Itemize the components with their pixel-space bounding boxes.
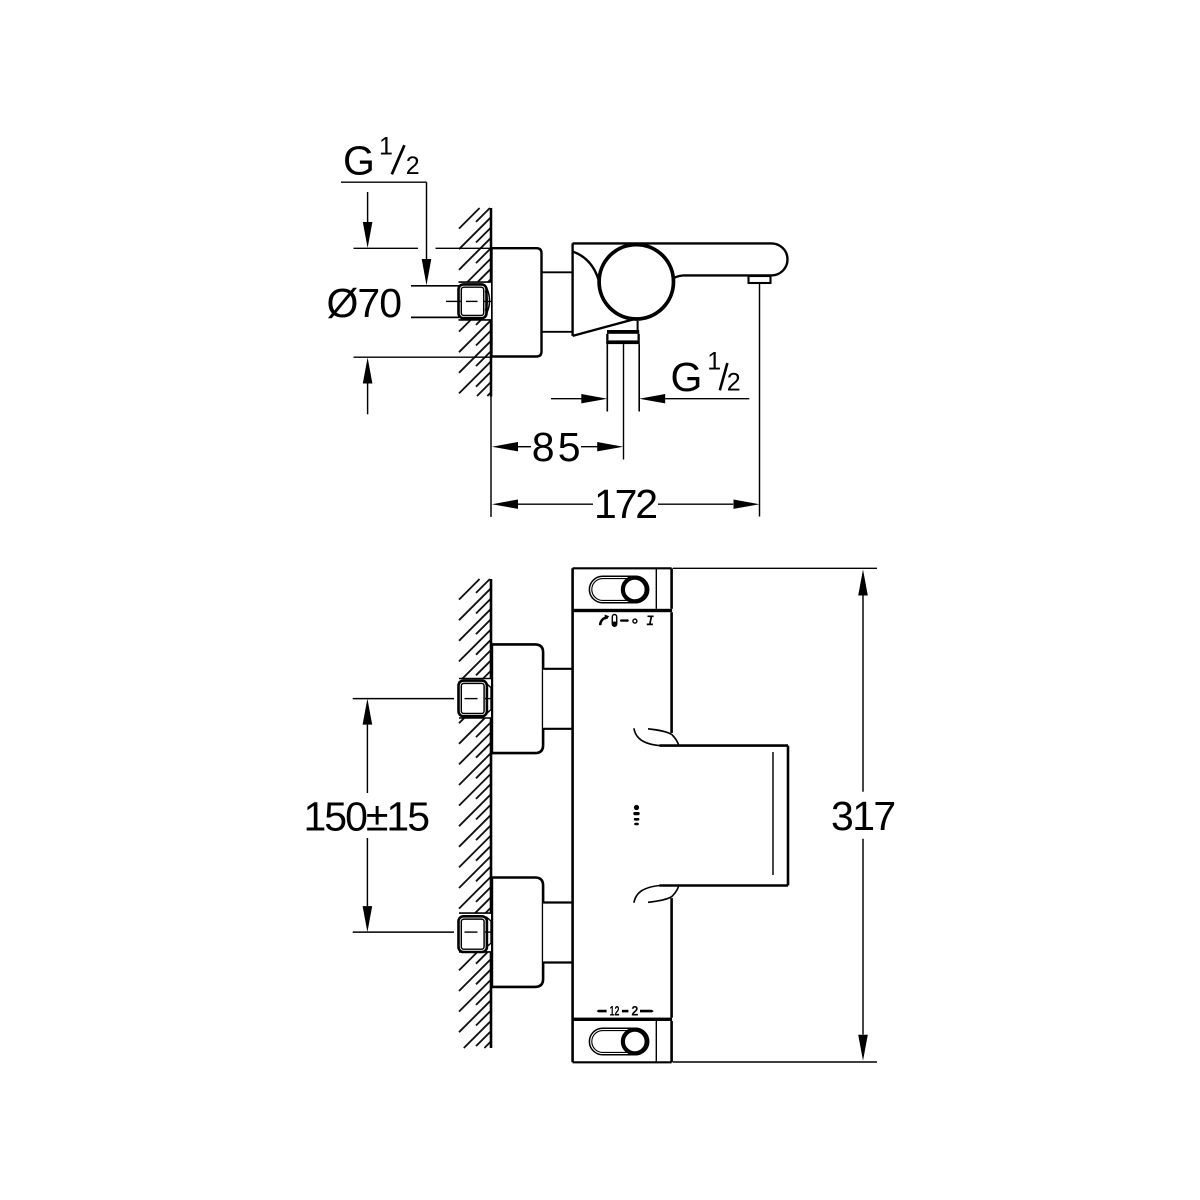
svg-text:2: 2	[406, 152, 420, 180]
svg-text:2: 2	[631, 1003, 638, 1018]
svg-text:2: 2	[727, 368, 741, 396]
svg-text:85: 85	[532, 424, 581, 470]
svg-text:12: 12	[610, 1003, 620, 1018]
svg-text:317: 317	[831, 793, 896, 839]
svg-text:G: G	[671, 354, 703, 400]
svg-text:150±15: 150±15	[304, 793, 431, 839]
svg-text:172: 172	[594, 481, 658, 527]
svg-text:1: 1	[379, 133, 393, 161]
svg-text:G: G	[343, 138, 375, 184]
svg-text:1: 1	[707, 348, 721, 376]
svg-text:Ø70: Ø70	[327, 280, 403, 326]
